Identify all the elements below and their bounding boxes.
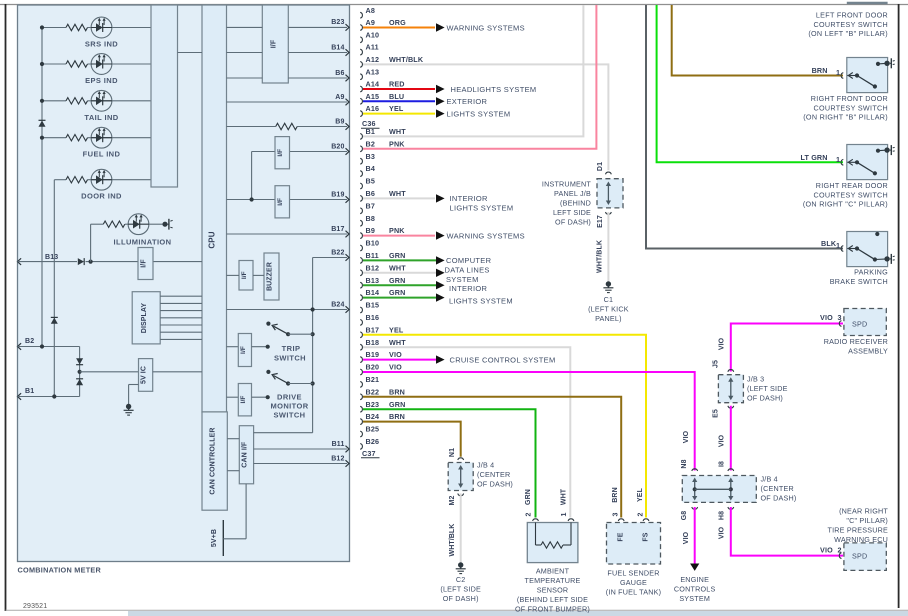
- connector pin A15: [360, 92, 379, 104]
- svg-text:COURTESY SWITCH: COURTESY SWITCH: [813, 103, 888, 112]
- wire diodes to 5V IC: [80, 371, 139, 373]
- svg-text:2: 2: [526, 513, 533, 517]
- svg-text:A12: A12: [366, 55, 380, 64]
- connector pin A12: [360, 55, 379, 67]
- pin N8: [681, 459, 697, 471]
- svg-text:TRIP: TRIP: [282, 344, 301, 353]
- wire riser to CAN I/F: [254, 432, 313, 434]
- J/B 4 left arrow: [458, 465, 463, 488]
- LED ILLUMINATION: [128, 214, 149, 235]
- connector pin B4: [360, 164, 375, 176]
- arrow warning systems 2: [436, 231, 445, 239]
- svg-text:J/B 4: J/B 4: [477, 461, 494, 470]
- svg-text:A11: A11: [366, 43, 379, 52]
- indicator output bar: [151, 5, 178, 187]
- svg-text:B22: B22: [331, 249, 344, 256]
- label RIGHT REAR DOOR COURTESY SWITCH: [803, 181, 888, 209]
- svg-text:B14: B14: [331, 44, 344, 51]
- svg-text:ORG: ORG: [389, 18, 406, 27]
- svg-text:FS: FS: [643, 532, 650, 541]
- resistor TAIL IND: [66, 98, 88, 104]
- svg-text:H8: H8: [719, 511, 726, 520]
- svg-text:G8: G8: [681, 511, 688, 521]
- B13 diode: [78, 258, 84, 265]
- fuel sender gauge box: [607, 523, 661, 565]
- connector pin B16: [360, 313, 379, 325]
- left front door switch box bottom: [847, 2, 888, 4]
- svg-text:C2: C2: [456, 575, 466, 584]
- svg-text:(ON RIGHT "B" PILLAR): (ON RIGHT "B" PILLAR): [803, 113, 888, 122]
- label TRIP SWITCH: [274, 344, 306, 363]
- label WHT/BLK vertical 1: [597, 240, 604, 273]
- svg-text:BRN: BRN: [389, 387, 405, 396]
- svg-text:FE: FE: [618, 532, 625, 541]
- svg-text:TAIL IND: TAIL IND: [84, 113, 118, 122]
- svg-text:VIO: VIO: [683, 430, 690, 443]
- svg-text:B23: B23: [366, 400, 380, 409]
- svg-text:YEL: YEL: [389, 325, 404, 334]
- connector pin B1: [360, 127, 375, 139]
- svg-text:MONITOR: MONITOR: [270, 402, 308, 411]
- connector pin B23: [360, 400, 379, 412]
- svg-text:OF FRONT BUMPER): OF FRONT BUMPER): [515, 605, 590, 614]
- wire B18 WHT: [363, 338, 570, 518]
- svg-text:N1: N1: [449, 448, 456, 457]
- diode D-down: [76, 358, 83, 364]
- svg-text:SYSTEM: SYSTEM: [679, 594, 710, 603]
- resistor B9 row: [276, 123, 298, 129]
- connector C37 label: [361, 449, 380, 458]
- svg-text:CAN I/F: CAN I/F: [241, 441, 248, 468]
- switch riser: [312, 258, 314, 433]
- svg-text:"C" PILLAR): "C" PILLAR): [846, 516, 888, 525]
- connector pin B7: [360, 201, 375, 213]
- svg-text:C1: C1: [604, 295, 614, 304]
- wire BLK parking brake: [646, 5, 843, 249]
- svg-text:WHT/BLK: WHT/BLK: [597, 240, 604, 273]
- connector pin B20: [360, 363, 379, 375]
- ambient sensor internal: [536, 523, 572, 549]
- svg-text:B5: B5: [366, 177, 376, 186]
- svg-text:OF DASH): OF DASH): [555, 218, 591, 227]
- svg-text:B24: B24: [366, 412, 380, 421]
- svg-text:OF DASH): OF DASH): [477, 480, 513, 489]
- label C2: [440, 575, 481, 603]
- svg-text:I/F: I/F: [240, 346, 247, 354]
- label TAIL IND: [84, 113, 118, 122]
- connector pin B2: [360, 139, 375, 151]
- svg-text:LT GRN: LT GRN: [801, 153, 828, 162]
- svg-text:(LEFT KICK: (LEFT KICK: [588, 305, 629, 314]
- svg-text:OF DASH): OF DASH): [761, 494, 797, 503]
- svg-text:ILLUMINATION: ILLUMINATION: [114, 238, 172, 247]
- svg-text:B26: B26: [366, 437, 380, 446]
- label DOOR IND: [81, 192, 122, 201]
- label WHT/BLK vertical 2: [449, 524, 456, 557]
- svg-text:B9: B9: [366, 226, 376, 235]
- svg-text:ENGINE: ENGINE: [680, 575, 709, 584]
- wire B1 WHT: [363, 5, 583, 136]
- svg-text:A9: A9: [335, 94, 344, 101]
- svg-text:B17: B17: [331, 226, 344, 233]
- svg-text:A10: A10: [366, 30, 380, 39]
- arrow headlights: [436, 85, 445, 93]
- label VIO vertical I8 up: [719, 434, 726, 447]
- B2 exit arrow: [18, 338, 35, 350]
- wires CAN controller to CAN I/F: [227, 439, 239, 471]
- svg-text:DISPLAY: DISPLAY: [141, 303, 148, 334]
- edge row B24: [227, 301, 350, 313]
- J/B 4 right box: [682, 476, 756, 503]
- connector pin B3: [360, 152, 375, 164]
- svg-text:293521: 293521: [23, 603, 47, 610]
- page bottom rule: [6, 609, 908, 611]
- svg-text:PANEL): PANEL): [595, 314, 622, 323]
- 5V IC ground wire: [129, 385, 139, 405]
- svg-text:COMPUTER: COMPUTER: [446, 256, 492, 265]
- svg-text:YEL: YEL: [637, 487, 644, 502]
- svg-text:B20: B20: [366, 363, 380, 372]
- svg-text:5V IC: 5V IC: [141, 366, 148, 384]
- wire CPU to drive I/F: [227, 396, 239, 398]
- arrow lights 2: [436, 293, 445, 301]
- illumination chassis ground: [162, 219, 172, 230]
- svg-text:BLK: BLK: [821, 239, 837, 248]
- svg-text:B2: B2: [366, 139, 376, 148]
- svg-text:WHT: WHT: [561, 488, 568, 505]
- wire VIO radio: [731, 324, 843, 372]
- connector pin A8: [360, 6, 375, 18]
- J/B 3 box: [718, 375, 743, 403]
- pin E17: [597, 212, 611, 228]
- indicator DOOR IND wire: [54, 179, 151, 181]
- label FE FS: [618, 532, 650, 541]
- indicator TAIL IND wire: [40, 99, 151, 103]
- svg-text:TEMPERATURE: TEMPERATURE: [525, 576, 581, 585]
- SPD box tire: [839, 543, 886, 571]
- svg-text:WHT/BLK: WHT/BLK: [389, 55, 424, 64]
- label ILLUMINATION: [114, 238, 172, 247]
- svg-text:B9: B9: [335, 118, 344, 125]
- wire A14 RED: [363, 80, 435, 89]
- label RIGHT FRONT DOOR COURTESY SWITCH: [803, 94, 888, 122]
- svg-text:WHT/BLK: WHT/BLK: [449, 524, 456, 557]
- svg-text:J/B 4: J/B 4: [761, 475, 778, 484]
- edge row B11: [254, 441, 350, 453]
- svg-text:B20: B20: [331, 143, 344, 150]
- resistor SRS IND: [66, 24, 88, 30]
- connector pin B5: [360, 177, 375, 189]
- svg-text:INTERIOR: INTERIOR: [449, 284, 488, 293]
- indicator EPS IND wire: [40, 62, 151, 66]
- pin E5: [713, 406, 734, 418]
- svg-text:RADIO RECEIVER: RADIO RECEIVER: [824, 337, 888, 346]
- svg-text:BLU: BLU: [389, 92, 404, 101]
- svg-text:2: 2: [638, 513, 645, 517]
- B13 wire: [18, 260, 203, 264]
- pin G8: [681, 507, 697, 520]
- edge row B22: [313, 249, 350, 260]
- svg-text:1: 1: [836, 155, 840, 164]
- svg-text:SPD: SPD: [852, 551, 867, 560]
- pin D1: [597, 162, 611, 174]
- wire trip I/F to contact: [252, 346, 268, 348]
- svg-text:CPU: CPU: [207, 231, 216, 248]
- label VIO vertical J5: [719, 337, 726, 350]
- wire B22 BRN: [363, 387, 621, 517]
- parking brake switch: [841, 232, 895, 267]
- svg-text:(CENTER: (CENTER: [477, 470, 510, 479]
- arrow lights: [436, 109, 445, 117]
- svg-text:B2: B2: [25, 338, 34, 345]
- svg-text:WARNING ECU: WARNING ECU: [834, 535, 888, 544]
- I/F box B13: [138, 248, 153, 280]
- svg-text:1: 1: [836, 68, 840, 77]
- label WARNING SYSTEMS 2: [447, 231, 525, 240]
- wire WHT top exit: [0, 0, 1, 1]
- label COMPUTER DATA LINES SYSTEM: [445, 256, 492, 284]
- svg-text:FUEL SENDER: FUEL SENDER: [607, 569, 659, 578]
- arrow computer data 2: [436, 269, 445, 277]
- svg-text:B10: B10: [366, 239, 380, 248]
- connector pin B24: [360, 412, 379, 424]
- svg-text:(LEFT SIDE: (LEFT SIDE: [440, 585, 481, 594]
- display bus wires: [160, 296, 202, 339]
- svg-text:B13: B13: [45, 254, 58, 261]
- edge row A9: [227, 94, 350, 106]
- svg-text:B8: B8: [366, 214, 376, 223]
- label VIO vertical N8 up: [683, 430, 690, 443]
- trip switch: [266, 322, 315, 349]
- connector pin A10: [360, 30, 379, 42]
- bus 1 left vertical: [41, 28, 43, 347]
- connector pin A13: [360, 67, 379, 79]
- svg-text:VIO: VIO: [389, 350, 402, 359]
- instrument panel J/B box: [597, 179, 623, 208]
- pin H8: [719, 507, 734, 520]
- svg-text:B12: B12: [366, 263, 380, 272]
- wire 5V+B to CAN I/F: [223, 484, 246, 539]
- svg-text:B7: B7: [366, 201, 376, 210]
- svg-text:1: 1: [836, 241, 840, 250]
- svg-text:B12: B12: [331, 455, 344, 462]
- svg-text:B4: B4: [366, 164, 376, 173]
- svg-text:B21: B21: [366, 375, 380, 384]
- wire PNK top exit: [0, 0, 1, 1]
- bus 2 diode: [51, 317, 58, 323]
- svg-text:INTERIOR: INTERIOR: [450, 194, 489, 203]
- horizontal scrollbar: [0, 611, 908, 616]
- edge row B6: [227, 70, 350, 82]
- 5V IC box: [139, 359, 153, 392]
- svg-text:B15: B15: [366, 301, 380, 310]
- arrow interior 2: [436, 281, 445, 289]
- resistor FUEL IND: [66, 135, 88, 141]
- svg-text:COMBINATION METER: COMBINATION METER: [18, 566, 102, 575]
- svg-text:BRN: BRN: [389, 412, 405, 421]
- svg-text:B22: B22: [366, 387, 380, 396]
- svg-text:SYSTEM: SYSTEM: [446, 275, 479, 284]
- label J/B 3: [747, 375, 788, 403]
- wire A12 WHT/BLK: [363, 55, 608, 170]
- svg-text:B17: B17: [366, 325, 380, 334]
- svg-text:(BEHIND: (BEHIND: [560, 199, 591, 208]
- label VIO 3 radio: [820, 313, 842, 322]
- svg-text:WHT: WHT: [389, 263, 406, 272]
- page top border: [0, 4, 908, 6]
- svg-text:WARNING SYSTEMS: WARNING SYSTEMS: [447, 231, 525, 240]
- svg-text:I/F: I/F: [277, 198, 284, 206]
- B1 wire: [18, 394, 80, 398]
- wire G8 to engine: [694, 507, 696, 564]
- connector pin B11: [360, 251, 379, 263]
- wire bar to CPU: [178, 52, 203, 54]
- svg-text:PNK: PNK: [389, 226, 405, 235]
- connector pin B19: [360, 350, 379, 362]
- pin M2: [449, 494, 464, 506]
- pin 2 GRN sensor: [525, 489, 538, 521]
- svg-text:RED: RED: [389, 80, 405, 89]
- svg-text:N8: N8: [681, 459, 688, 468]
- svg-text:COURTESY SWITCH: COURTESY SWITCH: [813, 20, 888, 29]
- svg-text:(CENTER: (CENTER: [761, 484, 794, 493]
- label FUEL SENDER GAUGE: [606, 569, 661, 597]
- svg-text:RIGHT FRONT DOOR: RIGHT FRONT DOOR: [811, 94, 888, 103]
- svg-text:C37: C37: [362, 449, 376, 458]
- svg-text:1: 1: [561, 513, 568, 517]
- wire CPU to buzzer I/F: [227, 274, 240, 276]
- svg-text:A15: A15: [366, 92, 380, 101]
- wire B9 PNK: [363, 226, 435, 235]
- label INTERIOR LIGHTS SYSTEM 1: [450, 194, 514, 212]
- edge row B12: [254, 455, 350, 467]
- svg-text:(ON LEFT "B" PILLAR): (ON LEFT "B" PILLAR): [808, 29, 888, 38]
- label RADIO RECEIVER ASSEMBLY: [824, 337, 888, 356]
- svg-text:I/F: I/F: [277, 149, 284, 157]
- ground C2: [456, 562, 466, 573]
- svg-text:BRAKE SWITCH: BRAKE SWITCH: [830, 277, 888, 286]
- combination meter box: [18, 5, 350, 562]
- svg-text:D1: D1: [597, 162, 604, 171]
- connector pin A9: [360, 18, 375, 30]
- svg-text:I/F: I/F: [241, 271, 248, 279]
- svg-text:OF DASH): OF DASH): [747, 394, 783, 403]
- right rear door courtesy switch: [841, 145, 895, 180]
- wire A16 YEL: [363, 104, 435, 113]
- svg-text:B16: B16: [366, 313, 380, 322]
- connector pin A16: [360, 104, 379, 116]
- svg-text:VIO: VIO: [820, 313, 833, 322]
- BUZZER box: [264, 253, 279, 300]
- label VIO 2 tire: [820, 546, 842, 555]
- wire A9 ORG: [363, 18, 435, 27]
- label BRN pin1: [812, 66, 841, 77]
- ground C1: [603, 281, 613, 292]
- svg-text:GRN: GRN: [525, 489, 532, 505]
- svg-text:AMBIENT: AMBIENT: [536, 567, 570, 576]
- pin 3 BRN gauge: [612, 487, 624, 521]
- I/F box buzzer: [239, 261, 253, 291]
- label CRUISE CONTROL SYSTEM: [450, 355, 556, 364]
- svg-text:GAUGE: GAUGE: [620, 578, 647, 587]
- CPU label: [207, 231, 216, 248]
- svg-text:CONTROLS: CONTROLS: [674, 585, 716, 594]
- edge row B19: [227, 191, 350, 203]
- label EPS IND: [85, 76, 118, 85]
- label ENGINE CONTROLS SYSTEM: [674, 575, 716, 603]
- svg-text:J5: J5: [713, 360, 720, 368]
- label SRS IND: [85, 40, 118, 49]
- CPU bar: [202, 5, 227, 412]
- pin 1 WHT sensor: [561, 488, 574, 521]
- svg-text:B1: B1: [366, 127, 376, 136]
- wire 5V IC to CPU: [153, 371, 202, 373]
- resistor DOOR IND: [66, 177, 88, 183]
- bus 2 vertical (door ind to B1): [53, 180, 55, 397]
- svg-text:VIO: VIO: [719, 337, 726, 350]
- svg-text:GRN: GRN: [389, 276, 405, 285]
- edge row B23: [227, 19, 350, 31]
- svg-text:YEL: YEL: [389, 104, 404, 113]
- connector pin B15: [360, 301, 379, 313]
- wire B17 YEL: [363, 325, 646, 517]
- footer id 293521: [23, 603, 47, 610]
- svg-text:COURTESY SWITCH: COURTESY SWITCH: [813, 190, 888, 199]
- arrow exterior: [436, 97, 445, 105]
- wire B23 GRN: [363, 400, 536, 518]
- label WARNING SYSTEMS 1: [447, 23, 525, 32]
- svg-text:B1: B1: [25, 388, 34, 395]
- svg-text:SENSOR: SENSOR: [537, 586, 569, 595]
- LED FUEL IND: [91, 127, 112, 148]
- svg-text:I/F: I/F: [240, 396, 247, 404]
- pin J5: [713, 360, 734, 372]
- edge row B20: [290, 143, 350, 155]
- svg-text:A9: A9: [366, 18, 376, 27]
- illumination wire: [91, 223, 163, 225]
- svg-text:B11: B11: [332, 441, 345, 448]
- edge row B14: [227, 44, 350, 56]
- connector pin B18: [360, 338, 379, 350]
- svg-text:GRN: GRN: [389, 251, 405, 260]
- svg-text:(BEHIND LEFT SIDE: (BEHIND LEFT SIDE: [517, 595, 588, 604]
- svg-text:SWITCH: SWITCH: [274, 354, 306, 363]
- svg-text:LEFT FRONT DOOR: LEFT FRONT DOOR: [816, 11, 888, 20]
- svg-text:ASSEMBLY: ASSEMBLY: [848, 347, 888, 356]
- wire E5 to I8: [730, 406, 732, 471]
- label AMBIENT TEMPERATURE SENSOR: [515, 567, 590, 614]
- SPD box radio: [839, 309, 886, 336]
- connector pin B26: [360, 437, 379, 449]
- label FUEL IND: [83, 150, 121, 159]
- wire I/F to buzzer: [253, 274, 264, 276]
- svg-text:3: 3: [613, 513, 620, 517]
- svg-text:WHT: WHT: [389, 338, 406, 347]
- svg-text:VIO: VIO: [820, 546, 833, 555]
- svg-text:PANEL J/B: PANEL J/B: [554, 189, 591, 198]
- CAN CONTROLLER box: [202, 412, 227, 510]
- svg-text:SWITCH: SWITCH: [274, 411, 306, 420]
- svg-text:(LEFT SIDE: (LEFT SIDE: [747, 384, 788, 393]
- svg-text:B3: B3: [366, 152, 376, 161]
- label HEADLIGHTS SYSTEM: [451, 85, 537, 94]
- wire B14 GRN: [363, 288, 436, 297]
- wire LT GRN right rear door: [657, 5, 843, 162]
- label DRIVE MONITOR SWITCH: [270, 393, 308, 420]
- connector pin B25: [360, 425, 379, 437]
- svg-text:BUZZER: BUZZER: [267, 262, 274, 291]
- wire E17 to C1: [607, 212, 609, 283]
